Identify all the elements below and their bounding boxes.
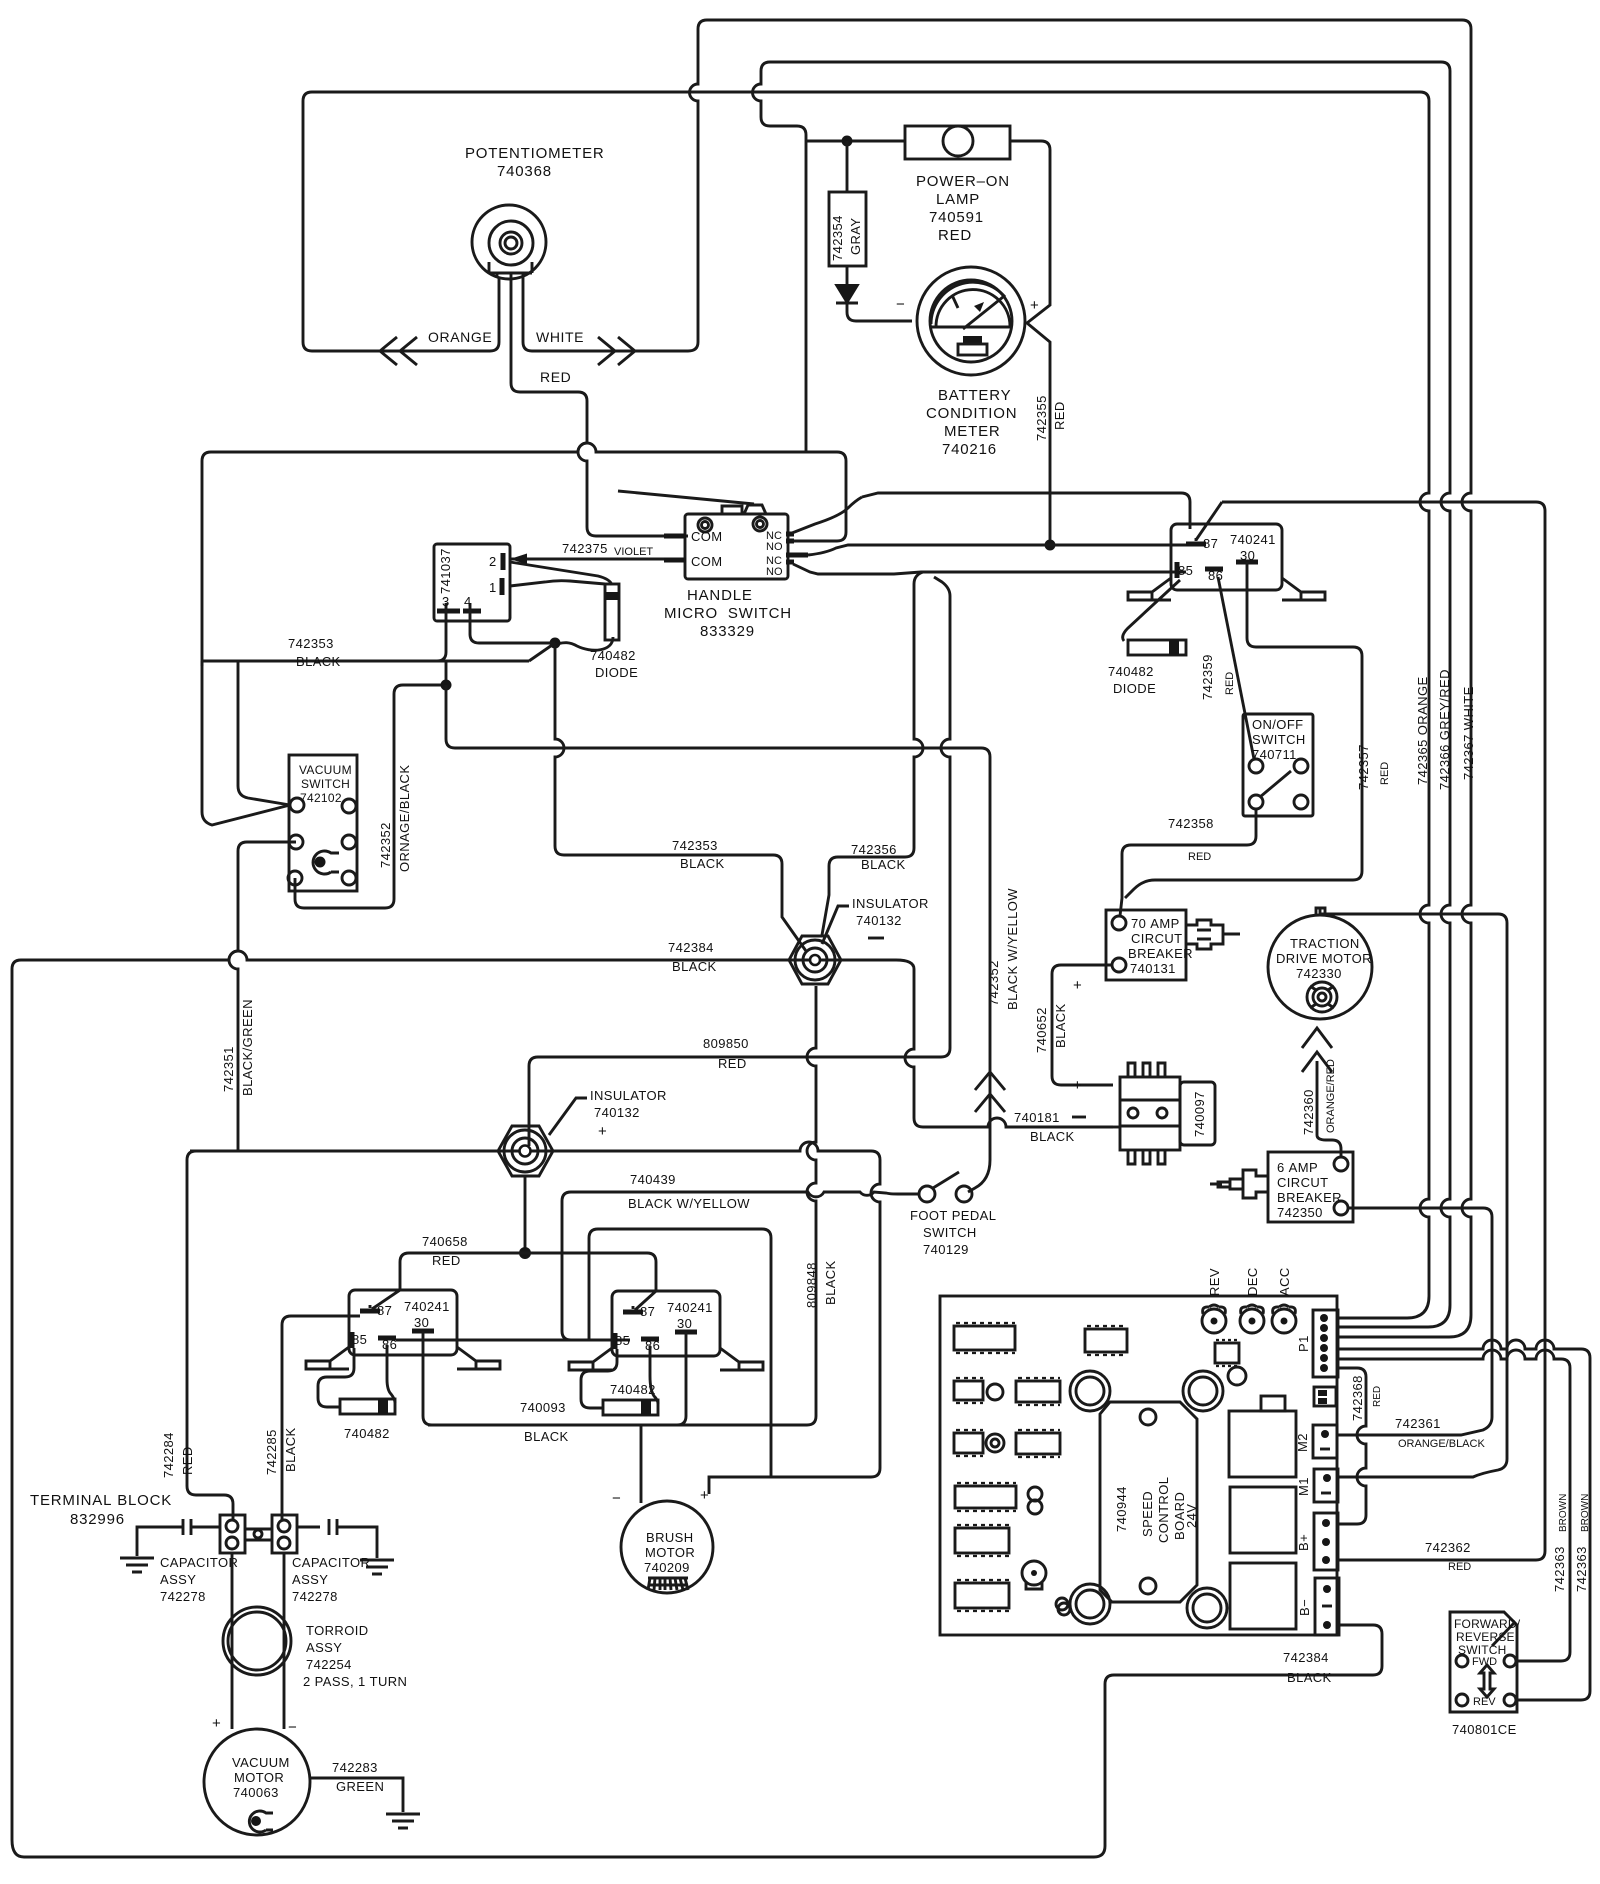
node junction 446 685 (441, 680, 452, 691)
svg-text:742367 WHITE: 742367 WHITE (1461, 686, 1476, 780)
svg-text:BLACK: BLACK (672, 959, 717, 974)
svg-text:1: 1 (489, 580, 497, 595)
svg-text:742375: 742375 (562, 541, 608, 556)
svg-text:DRIVE MOTOR: DRIVE MOTOR (1276, 951, 1372, 966)
node junction 740658 (519, 1247, 531, 1259)
svg-text:742278: 742278 (160, 1589, 206, 1604)
svg-text:RED: RED (1372, 1386, 1383, 1407)
screw hole bottom left (1070, 1584, 1110, 1624)
svg-text:POTENTIOMETER: POTENTIOMETER (465, 145, 605, 162)
wire 740181 black from 914 corner to connector (1113, 1126, 1120, 1129)
svg-text:GRAY: GRAY (848, 218, 863, 255)
power-on lamp 740591 (905, 126, 1010, 159)
forward/reverse switch 740801CE (1450, 1612, 1517, 1712)
wire terminal block left down to vacuum motor plus (231, 1553, 234, 1729)
svg-text:POWER–ON: POWER–ON (916, 173, 1010, 190)
svg-text:742362: 742362 (1425, 1540, 1471, 1555)
70 amp circut breaker 740131 (1106, 910, 1240, 980)
svg-text:HANDLE: HANDLE (687, 587, 753, 604)
svg-text:VIOLET: VIOLET (614, 546, 653, 558)
svg-text:MOTOR: MOTOR (645, 1545, 695, 1560)
svg-text:M1: M1 (1296, 1477, 1311, 1496)
svg-text:85: 85 (615, 1333, 630, 1348)
wire relay87 east to B+ 742362 red (1222, 502, 1545, 1560)
svg-text:SWITCH: SWITCH (1252, 732, 1306, 747)
connector 740097 (1120, 1063, 1215, 1164)
svg-text:740944: 740944 (1114, 1486, 1129, 1532)
wire 85B to diode B left (581, 1349, 617, 1408)
relay feet top right (1128, 578, 1325, 600)
svg-text:740063: 740063 (233, 1785, 279, 1800)
svg-text:CIRCUT: CIRCUT (1277, 1175, 1329, 1190)
svg-text:BLACK: BLACK (823, 1260, 838, 1305)
svg-text:BLACK W/YELLOW: BLACK W/YELLOW (628, 1196, 750, 1211)
svg-text:FOOT PEDAL: FOOT PEDAL (910, 1208, 996, 1223)
svg-text:DEC: DEC (1245, 1267, 1260, 1296)
svg-text:742354: 742354 (830, 215, 845, 261)
svg-text:742285: 742285 (264, 1429, 279, 1475)
svg-text:85: 85 (352, 1332, 367, 1347)
brush motor 740209 (621, 1501, 713, 1593)
svg-text:BLACK: BLACK (680, 856, 725, 871)
svg-text:RED: RED (1052, 401, 1067, 430)
connector B+ (1314, 1513, 1338, 1570)
wire insulator2 line to brush motor plus (190, 1142, 880, 1494)
wire 30 pin down right 742357 red to 70A breaker (1125, 569, 1362, 898)
svg-text:METER: METER (944, 423, 1001, 440)
wire P1 pin4 to REV (1338, 1340, 1590, 1700)
wire lamp right down 742355 red to relay 87 (1010, 141, 1050, 544)
svg-text:MICRO SWITCH: MICRO SWITCH (664, 605, 792, 622)
svg-text:RED: RED (1379, 762, 1391, 785)
svg-text:BLACK: BLACK (1287, 1670, 1332, 1685)
svg-text:742351: 742351 (221, 1046, 236, 1092)
svg-text:742350: 742350 (1277, 1205, 1323, 1220)
wire brush minus tap on 740093 (640, 1425, 643, 1503)
svg-text:742368: 742368 (1350, 1375, 1365, 1421)
on/off switch 740711 (1243, 714, 1313, 816)
svg-text:741037: 741037 (438, 548, 453, 594)
wire arrows on orange wire (380, 337, 417, 365)
wire orange loop: potentiometer ORANGE lead around top, frame3, down to P1 pin1 (303, 92, 1429, 1318)
svg-text:ON/OFF: ON/OFF (1252, 717, 1304, 732)
svg-text:B−: B− (1297, 1599, 1312, 1616)
wire breaker bottom left 740652 black (1052, 965, 1113, 1085)
svg-text:ASSY: ASSY (292, 1572, 328, 1587)
svg-text:BLACK: BLACK (296, 654, 341, 669)
connector M2 (1313, 1425, 1337, 1458)
pad small circle (1056, 1598, 1068, 1610)
svg-text:CONDITION: CONDITION (926, 405, 1017, 422)
svg-text:CAPACITOR: CAPACITOR (160, 1555, 238, 1570)
svg-text:742384: 742384 (1283, 1650, 1329, 1665)
svg-text:−: − (612, 1490, 622, 1507)
svg-text:VACUUM: VACUUM (232, 1755, 290, 1770)
svg-text:DIODE: DIODE (595, 665, 638, 680)
relay feet lower right (569, 1348, 763, 1370)
svg-text:INSULATOR: INSULATOR (590, 1088, 667, 1103)
wire junction down to resistor 742354 (846, 141, 849, 192)
svg-text:VACUUM: VACUUM (299, 763, 352, 777)
svg-text:742330: 742330 (1296, 966, 1342, 981)
wire 742353 black junction down to insulator1 (555, 643, 806, 951)
svg-text:2 PASS, 1 TURN: 2 PASS, 1 TURN (303, 1674, 407, 1689)
svg-text:742365 ORANGE: 742365 ORANGE (1415, 676, 1430, 785)
wire 742364 black: left border to insulator 740132 upper (12, 951, 1113, 1840)
pad circle near bottom left screw (1058, 1603, 1070, 1615)
svg-text:3: 3 (442, 594, 450, 609)
svg-text:LAMP: LAMP (936, 191, 980, 208)
pot REV (1202, 1305, 1226, 1333)
relay 741037 (434, 544, 510, 621)
svg-text:740241: 740241 (404, 1299, 450, 1314)
transistor block 2 (1230, 1487, 1296, 1553)
capacitor assy left (137, 1519, 220, 1556)
svg-text:4: 4 (464, 594, 472, 609)
svg-text:+: + (212, 1715, 222, 1732)
svg-text:NO: NO (766, 541, 783, 553)
svg-text:742359: 742359 (1200, 654, 1215, 700)
svg-text:740093: 740093 (520, 1400, 566, 1415)
svg-text:742254: 742254 (306, 1657, 352, 1672)
relay 740241 lower right (612, 1291, 720, 1356)
wire grey/red: frame2 from handle micro switch NO down to P1 pin2 (753, 62, 1451, 1327)
svg-text:BLACK: BLACK (283, 1427, 298, 1472)
svg-text:RED: RED (1224, 672, 1236, 695)
wire junction diagonal to 742353 wire (529, 643, 555, 661)
svg-text:30: 30 (414, 1315, 429, 1330)
svg-text:+: + (1030, 297, 1040, 314)
svg-text:742352: 742352 (986, 960, 1001, 1006)
wire 742283 green to ground (310, 1778, 403, 1812)
speed control board outline (940, 1296, 1337, 1635)
potentiometer 740368 (472, 205, 546, 279)
svg-text:ORANGE: ORANGE (428, 329, 492, 345)
diode 740482 under relay A (340, 1399, 395, 1414)
svg-text:TRACTION: TRACTION (1290, 936, 1360, 951)
wire lamp left to frame2 vertical with junction (806, 140, 905, 143)
svg-text:740241: 740241 (667, 1300, 713, 1315)
IC chip 8 (955, 1525, 1009, 1556)
terminal block 832996 (220, 1515, 297, 1553)
svg-text:RED: RED (180, 1446, 195, 1475)
wire 742352 vacuum switch to foot pedal (295, 685, 446, 908)
svg-text:ASSY: ASSY (160, 1572, 196, 1587)
svg-text:30: 30 (677, 1316, 692, 1331)
wire 86B to diode B right (650, 1346, 658, 1404)
svg-text:DIODE: DIODE (1113, 681, 1156, 696)
svg-text:740591: 740591 (929, 209, 984, 226)
wire 742368 red P1 pin6 to B+ top (1338, 1368, 1366, 1524)
wire 30A down to 740093 (423, 1338, 432, 1425)
screw hole bottom right (1187, 1588, 1227, 1628)
wire foot pedal left 740439 black w/yellow (562, 1192, 919, 1340)
svg-text:740097: 740097 (1192, 1091, 1207, 1137)
svg-text:BREAKER: BREAKER (1128, 946, 1193, 961)
pad circles pair (1028, 1487, 1042, 1514)
svg-text:740181: 740181 (1014, 1110, 1060, 1125)
svg-text:742360: 742360 (1301, 1089, 1316, 1135)
wire 85A to diode A left (318, 1348, 354, 1407)
wire 809850 red: insulator2 up to handle switch wire (529, 577, 950, 1146)
svg-text:24V: 24V (1184, 1504, 1199, 1528)
lever arm of micro switch (618, 491, 754, 504)
svg-text:−: − (896, 296, 906, 313)
svg-text:740131: 740131 (1130, 961, 1176, 976)
torroid assy 742254 (223, 1607, 291, 1675)
wire 742360 orange/red up arrow to traction motor (1316, 1061, 1319, 1135)
foot pedal switch 740129 (919, 1172, 972, 1202)
wire 742360 down to 6amp breaker (1317, 1135, 1341, 1157)
connector M1 (1314, 1469, 1338, 1502)
svg-text:70 AMP: 70 AMP (1131, 916, 1180, 931)
svg-text:740482: 740482 (344, 1426, 390, 1441)
svg-text:742366 GREY/RED: 742366 GREY/RED (1437, 669, 1452, 790)
svg-text:740241: 740241 (1230, 532, 1276, 547)
relay 740241 lower left (349, 1290, 457, 1355)
svg-text:740801CE: 740801CE (1452, 1722, 1517, 1737)
wire pin4 down short (470, 611, 555, 643)
IC chip 5 (954, 1430, 983, 1456)
pin stubs COM left (664, 536, 686, 560)
svg-text:742363: 742363 (1552, 1546, 1567, 1592)
svg-text:740482: 740482 (610, 1382, 656, 1397)
svg-text:BLACK: BLACK (861, 857, 906, 872)
svg-text:BLACK W/YELLOW: BLACK W/YELLOW (1005, 888, 1020, 1010)
svg-text:INSULATOR: INSULATOR (852, 896, 929, 911)
svg-text:FWD: FWD (1472, 1656, 1497, 1668)
connector P1 (1313, 1310, 1338, 1377)
transistor block 3 (1230, 1563, 1296, 1629)
blower icon vacuum switch (313, 851, 339, 874)
wire 742356 black: 85 wire down to insulator1 (822, 572, 923, 935)
svg-text:742284: 742284 (161, 1432, 176, 1478)
svg-text:833329: 833329 (700, 623, 755, 640)
IC chip 2 (1085, 1326, 1127, 1355)
resistor 742354 GRAY box (829, 192, 866, 266)
svg-text:REV: REV (1473, 1696, 1496, 1708)
wire 86 to on/off switch 742359 (1218, 577, 1254, 759)
pot ACC (1272, 1305, 1296, 1333)
node junction at 555 643 (550, 638, 561, 649)
wire 742285 black from 87A to terminal block right (282, 1316, 360, 1520)
svg-text:ORANGE/RED: ORANGE/RED (1325, 1059, 1337, 1133)
wire junction2 down to foot pedal horizontal (446, 685, 990, 1192)
pot DEC (1240, 1305, 1264, 1333)
wire pin3 down to junction 685 (437, 611, 446, 685)
traction drive motor 742330 (1268, 908, 1372, 1019)
svg-text:742358: 742358 (1168, 816, 1214, 831)
wire 742353 branch down to vacuum contact1 (238, 661, 290, 805)
svg-text:742353: 742353 (672, 838, 718, 853)
svg-text:ORANGE/BLACK: ORANGE/BLACK (1398, 1438, 1485, 1450)
node junction 742355 to 87 wire (1045, 540, 1056, 551)
svg-text:TERMINAL BLOCK: TERMINAL BLOCK (30, 1492, 172, 1509)
relay 740241 top right (1171, 524, 1282, 590)
svg-text:+: + (700, 1487, 710, 1504)
diode under resistor (847, 266, 912, 321)
wire pin2 to diode top (510, 562, 612, 585)
svg-text:740482: 740482 (1108, 664, 1154, 679)
svg-text:−: − (288, 1719, 298, 1736)
svg-text:B+: B+ (1296, 1534, 1311, 1551)
svg-text:FORWARD/: FORWARD/ (1454, 1617, 1521, 1631)
svg-text:NO: NO (766, 566, 783, 578)
svg-text:MOTOR: MOTOR (234, 1770, 284, 1785)
wire 742384 black bottom border loop to B- (12, 1625, 1382, 1857)
svg-text:740368: 740368 (497, 163, 552, 180)
capacitor assy right (297, 1519, 377, 1558)
handle micro switch 833329 (685, 505, 788, 579)
wire left vertical to vacuum contact1 diagonal (202, 661, 290, 825)
svg-text:P1: P1 (1296, 1335, 1311, 1352)
svg-text:742363: 742363 (1574, 1546, 1589, 1592)
svg-text:740132: 740132 (856, 913, 902, 928)
wire 6amp bottom to M2 742361 (1338, 1208, 1492, 1435)
insulator 740132 upper (789, 936, 841, 984)
svg-text:740711: 740711 (1252, 747, 1297, 762)
battery condition meter 740216 (917, 267, 1025, 375)
svg-text:740439: 740439 (630, 1172, 676, 1187)
svg-text:M2: M2 (1295, 1433, 1310, 1452)
wire 85 to diode (1123, 580, 1180, 641)
wire 742358 red on/off to 70A breaker (1120, 809, 1256, 916)
ground vacuum motor (386, 1814, 420, 1828)
svg-text:REVERSE: REVERSE (1456, 1630, 1515, 1644)
pad double circle (986, 1434, 1004, 1452)
IC chip 1 (954, 1323, 1015, 1353)
svg-text:742355: 742355 (1034, 395, 1049, 441)
svg-text:86: 86 (382, 1337, 397, 1352)
svg-text:742352: 742352 (378, 822, 393, 868)
svg-text:BROWN: BROWN (1558, 1494, 1569, 1532)
svg-text:RED: RED (718, 1056, 747, 1071)
svg-text:740132: 740132 (594, 1105, 640, 1120)
svg-text:BLACK: BLACK (1030, 1129, 1075, 1144)
svg-text:ACC: ACC (1277, 1267, 1292, 1296)
svg-text:742278: 742278 (292, 1589, 338, 1604)
svg-text:REV: REV (1207, 1268, 1222, 1296)
wire 740093 black horizontal (428, 1424, 790, 1427)
svg-text:CAPACITOR: CAPACITOR (292, 1555, 370, 1570)
pad circle (987, 1384, 1003, 1400)
wire P1 pin5 to FWD (1338, 1350, 1570, 1661)
wire RED pot lead down to COM of micro switch (511, 277, 688, 536)
IC chip 7 (955, 1483, 1016, 1511)
svg-text:742357: 742357 (1356, 744, 1371, 790)
svg-text:BLACK/GREEN: BLACK/GREEN (240, 999, 255, 1096)
svg-text:+: + (1073, 1077, 1083, 1094)
svg-text:740652: 740652 (1034, 1007, 1049, 1053)
svg-text:809850: 809850 (703, 1036, 749, 1051)
svg-text:RED: RED (938, 227, 972, 244)
svg-text:WHITE: WHITE (536, 329, 584, 345)
IC chip 4 (1016, 1378, 1060, 1405)
svg-text:BREAKER: BREAKER (1277, 1190, 1342, 1205)
svg-text:742384: 742384 (668, 940, 714, 955)
node junction lamp-resistor (842, 136, 853, 147)
wire terminal block right down to vacuum motor minus (283, 1553, 286, 1729)
connector jumper block (1314, 1387, 1336, 1406)
svg-text:RED: RED (540, 369, 571, 385)
6 amp circut breaker 742350 (1210, 1152, 1353, 1222)
wire 742351 black/green vacuum switch to terminal block left (187, 842, 296, 1520)
svg-text:TORROID: TORROID (306, 1623, 369, 1638)
IC chip 6 (1016, 1430, 1060, 1457)
svg-text:87: 87 (1203, 536, 1218, 551)
insulator 740132 lower (498, 1126, 553, 1176)
svg-text:SPEED: SPEED (1140, 1491, 1155, 1537)
svg-text:740209: 740209 (644, 1560, 690, 1575)
svg-text:2: 2 (489, 554, 497, 569)
svg-text:742361: 742361 (1395, 1416, 1441, 1431)
wire arrows on white wire (598, 337, 635, 365)
svg-text:87: 87 (377, 1303, 392, 1318)
svg-text:RED: RED (1448, 1561, 1471, 1573)
trimpot on board (1022, 1561, 1046, 1589)
svg-text:742356: 742356 (851, 842, 897, 857)
brush icon brush motor (648, 1578, 688, 1590)
ground right capacitor (360, 1560, 394, 1574)
relay feet lower left (306, 1347, 500, 1369)
wire 742353 black horizontal (202, 660, 529, 663)
IC chip 3 (954, 1378, 983, 1403)
wire 742375 VIOLET com2 to pin2 with arrow (510, 558, 664, 561)
svg-text:SWITCH: SWITCH (1458, 1643, 1507, 1657)
svg-text:COM: COM (691, 529, 723, 544)
wire white loop: potentiometer WHITE lead to outer top frame down to P1 pin3 (523, 20, 1471, 1337)
wire pin1 branch down to junction (555, 637, 613, 650)
svg-text:CONTROL: CONTROL (1156, 1477, 1171, 1543)
svg-text:86: 86 (645, 1338, 660, 1353)
wire 740658 red junction to both relay 87 pins (400, 1253, 656, 1290)
pin stubs NC NO right column (786, 534, 808, 562)
ground left capacitor (120, 1558, 154, 1572)
wire 30B down to 740093 (677, 1339, 686, 1425)
wire brush plus loop up (589, 1229, 771, 1477)
svg-text:ORNAGE/BLACK: ORNAGE/BLACK (397, 765, 412, 872)
svg-text:SWITCH: SWITCH (301, 777, 350, 791)
svg-text:740129: 740129 (923, 1242, 969, 1257)
svg-text:30: 30 (1240, 548, 1255, 563)
diode 740482 left vertical (605, 584, 619, 640)
svg-text:BRUSH: BRUSH (646, 1530, 694, 1545)
svg-text:87: 87 (640, 1304, 655, 1319)
wire pin1 to diode bottom and down (510, 581, 605, 586)
vacuum motor 740063 (204, 1729, 310, 1835)
svg-text:SWITCH: SWITCH (923, 1225, 977, 1240)
wire A from NC1 to relay 87 top (862, 493, 1190, 529)
svg-text:ASSY: ASSY (306, 1640, 342, 1655)
svg-text:742353: 742353 (288, 636, 334, 651)
svg-text:RED: RED (1188, 851, 1211, 863)
svg-text:742102: 742102 (300, 791, 342, 805)
svg-text:BROWN: BROWN (1580, 1494, 1591, 1532)
svg-text:BLACK: BLACK (1053, 1003, 1068, 1048)
svg-text:740216: 740216 (942, 441, 997, 458)
svg-text:742283: 742283 (332, 1760, 378, 1775)
svg-text:6 AMP: 6 AMP (1277, 1160, 1318, 1175)
IC chip 9 (955, 1580, 1009, 1611)
wire NC row to 87: horizontal 545 with junction (808, 545, 1186, 555)
svg-text:+: + (598, 1123, 608, 1140)
wire 87 diagonal to 742362 wire B (1196, 502, 1222, 540)
svg-text:COM: COM (691, 554, 723, 569)
svg-text:809848: 809848 (804, 1262, 819, 1308)
svg-text:86: 86 (1208, 568, 1223, 583)
svg-text:+: + (1073, 977, 1083, 994)
svg-text:CIRCUT: CIRCUT (1131, 931, 1183, 946)
